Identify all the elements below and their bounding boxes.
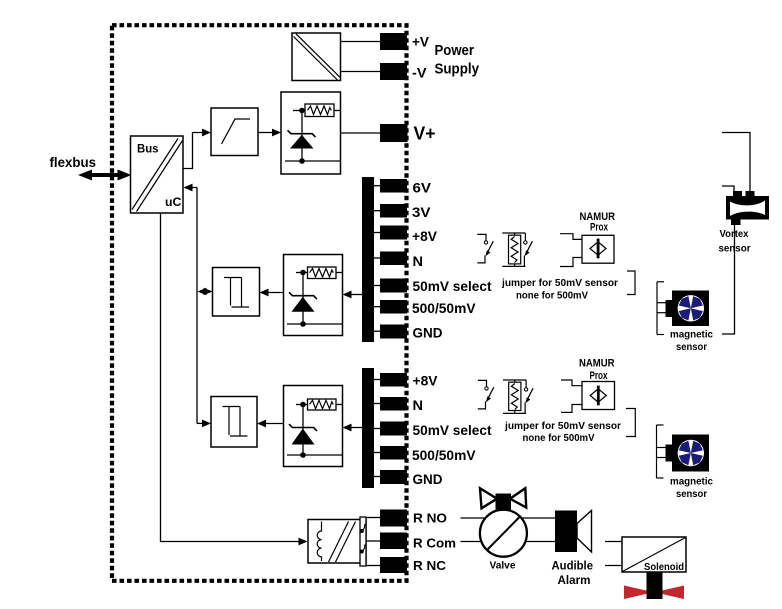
surge protection block ch1 with resistor and zener [284,255,343,336]
wire relay to R NO terminal [366,517,380,519]
svg-text:3V: 3V [412,204,431,220]
terminal 6V [380,179,407,193]
svg-text:GND: GND [413,471,443,487]
NAMUR proximity sensor ch2 [582,382,615,410]
terminal strip 1 connector bar [362,177,374,342]
terminal +8V (ch1) [380,226,407,240]
uC signal bus wire (vertical) [184,184,198,424]
terminal 50mV select (ch2) [380,422,407,436]
terminal 50mV select (ch1) [380,279,407,293]
svg-text:+8V: +8V [413,373,439,389]
svg-text:Prox: Prox [590,222,609,234]
terminal 3V [380,204,407,218]
terminal R NC [380,557,407,573]
svg-text:R NC: R NC [413,558,447,573]
wire to +V terminal [341,41,381,43]
svg-text:Prox: Prox [590,370,609,382]
svg-text:-V: -V [412,65,427,81]
svg-text:500/50mV: 500/50mV [412,300,476,316]
wire uC to relay [161,213,308,545]
svg-text:magnetic: magnetic [670,476,713,488]
terminal +8V (ch2) [380,373,407,387]
solenoid valve (red bowtie) [624,572,684,599]
svg-text:V+: V+ [414,124,436,144]
wire terminal bar 2 to surge ch2 [343,424,363,432]
vortex sensor down wire [722,225,735,334]
NAMUR ch1 left connection bracket [560,234,582,267]
svg-text:N: N [413,253,424,269]
svg-text:GND: GND [413,325,443,341]
svg-text:jumper for 50mV sensor: jumper for 50mV sensor [501,277,618,289]
wire surge block to V+ terminal [341,132,381,134]
comparator / schmitt trigger block ch1 [213,268,260,317]
jumper resistor 10k with switch ch1 [502,233,532,266]
surge protection block ch2 with resistor and zener [284,386,343,467]
solenoid block [622,537,686,573]
module dashed border [112,25,407,581]
wire R Com to valve [461,541,483,543]
jumper switch ch2 [478,380,494,409]
NAMUR ch1 right bracket [627,271,635,295]
terminal N (ch2) [380,397,407,411]
svg-text:Bus: Bus [137,141,159,155]
svg-text:+8V: +8V [412,228,438,244]
magnetic sensor ch1 [666,291,710,327]
comparator / schmitt trigger block ch2 [211,397,257,448]
wire valve to alarm (top) [521,517,555,519]
magnetic sensor ch2 [666,435,710,472]
terminal GND (ch2) [380,470,407,484]
svg-text:sensor: sensor [676,488,707,500]
svg-text:sensor: sensor [676,341,707,353]
valve actuator bowtie [480,488,526,512]
wire terminal bar to surge ch1 [343,291,363,299]
NAMUR proximity sensor ch1 [582,235,614,263]
terminal strip 2 connector bar [362,368,374,488]
svg-text:Alarm: Alarm [558,575,591,587]
NAMUR ch2 right bracket [626,409,635,437]
valve body [480,510,527,557]
V+ terminal [380,124,408,142]
wire uC to limiter [183,129,211,169]
svg-text:+V: +V [412,34,430,50]
strip 2 terminal stubs [374,380,380,477]
bidirectional arrow uC wire to comparator ch1 [198,288,213,295]
wire surge ch2 to comparator ch2 [257,420,284,428]
wire uC bus to comparator ch2 [197,420,211,428]
terminal R Com [380,533,407,550]
wire relay to R NC terminal [366,565,380,567]
strip 1 terminal stubs [374,186,380,332]
vortex sensor wire stub B [722,186,734,196]
svg-text:50mV select: 50mV select [413,422,492,438]
jumper switch ch1 [477,234,493,263]
bus interface / microcontroller U1 (Bus/uC isolation block) [131,136,184,213]
svg-text:magnetic: magnetic [670,329,713,341]
terminal 500/50mV (ch1) [380,300,407,314]
terminal 500/50mV (ch2) [380,446,407,460]
svg-text:R NO: R NO [413,511,447,526]
svg-text:Valve: Valve [490,560,516,572]
terminal R NO [380,510,407,527]
svg-text:Supply: Supply [435,61,480,78]
flexbus bidirectional arrow wire [78,170,132,181]
audible alarm speaker [555,511,592,553]
wire R NO to valve [461,517,486,519]
NAMUR ch2 left connection bracket [561,380,582,412]
magnetic sensor ch2 bracket [657,425,667,478]
svg-text:R Com: R Com [413,536,456,551]
svg-text:Vortex: Vortex [720,228,749,240]
wire stub to solenoid (top) [605,541,622,543]
svg-text:6V: 6V [413,180,432,196]
magnetic sensor ch1 bracket [657,282,667,335]
surge protection block (V+ supply) with resistor and zener [281,92,341,174]
svg-text:Power: Power [435,42,475,59]
svg-text:sensor: sensor [719,243,751,255]
limiter block (slope symbol) [211,108,258,156]
+V terminal [380,33,407,50]
wire relay to R Com terminal [366,540,380,542]
terminal N (ch1) [380,252,407,266]
wire stub to solenoid (bottom) [605,565,622,567]
wire limiter to surge block [258,129,281,137]
svg-text:500/50mV: 500/50mV [412,447,476,463]
svg-text:none for 500mV: none for 500mV [516,290,588,302]
wire surge ch1 to comparator ch1 [260,289,284,297]
jumper resistor 10k with switch ch2 [503,380,533,413]
svg-text:50mV select: 50mV select [413,278,492,294]
svg-text:flexbus: flexbus [50,154,97,170]
svg-text:NAMUR: NAMUR [579,358,615,370]
-V terminal [380,63,407,80]
svg-text:jumper for 50mV sensor: jumper for 50mV sensor [504,420,621,432]
wire to -V terminal [341,71,381,73]
vortex sensor body [726,191,769,225]
svg-text:N: N [413,397,424,413]
svg-text:Solenoid: Solenoid [644,561,684,573]
svg-text:Audible: Audible [552,561,594,573]
power supply converter block [292,33,341,81]
relay K1 (coil, isolation, contacts) [308,517,366,566]
terminal GND (ch1) [380,325,407,339]
svg-text:none for 500mV: none for 500mV [523,432,595,444]
wire valve to alarm (bottom) [524,541,555,543]
svg-text:uC: uC [165,195,182,209]
vortex sensor wire stub A [722,133,750,197]
